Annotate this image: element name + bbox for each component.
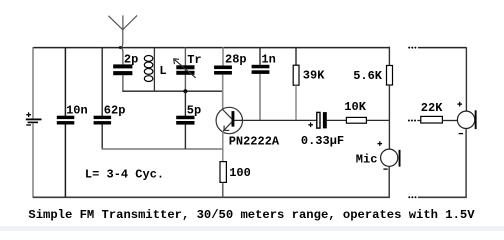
- node tank junction: [183, 89, 187, 93]
- wire 1n bottom lead: [259, 74, 261, 121]
- svg-text:2p: 2p: [124, 52, 138, 66]
- wire 10n top lead: [64, 47, 66, 116]
- wire 22K to earpiece: [442, 120, 457, 122]
- svg-text:5.6K: 5.6K: [353, 69, 383, 83]
- svg-text:Tr: Tr: [187, 53, 201, 67]
- svg-text:100: 100: [229, 166, 251, 180]
- svg-text:L: L: [159, 64, 166, 78]
- wire right rail top: [388, 47, 390, 66]
- resistor R4 5.6K: [353, 66, 392, 86]
- wire 10n bottom lead: [64, 125, 66, 198]
- capacitor C4 5p: [176, 104, 201, 125]
- wire inductor branch: [153, 47, 155, 91]
- svg-text:62p: 62p: [104, 104, 126, 118]
- svg-text:5p: 5p: [187, 104, 201, 118]
- wire 10K to right rail: [366, 119, 389, 121]
- wire tank row: [122, 90, 223, 92]
- transistor Q1 PN2222A: [216, 107, 280, 148]
- resistor R3 10K: [344, 100, 366, 123]
- svg-text:10n: 10n: [66, 104, 88, 118]
- svg-text:1n: 1n: [261, 52, 275, 66]
- antenna: [108, 15, 137, 47]
- capacitor C7 0.33uF: [301, 112, 344, 148]
- wire dotted link bottom: [408, 196, 416, 198]
- wire left rail upper: [32, 47, 34, 118]
- wire 2p bottom lead: [122, 75, 124, 91]
- wire left rail lower: [32, 123, 34, 197]
- wire right circuit right rail lower: [465, 129, 467, 198]
- wire right circuit right rail upper: [465, 47, 467, 111]
- wire dotted link top: [408, 47, 416, 49]
- resistor R2 39K: [293, 65, 325, 85]
- capacitor C2 62p: [94, 104, 126, 125]
- svg-text:PN2222A: PN2222A: [229, 135, 280, 149]
- wire right rail middle: [388, 85, 390, 149]
- wire right circuit top rail: [418, 47, 467, 49]
- node antenna junction: [119, 46, 122, 49]
- wire right circuit bottom rail: [418, 196, 467, 198]
- wire to 22K: [417, 120, 421, 122]
- resistor R5 22K: [421, 101, 443, 123]
- wire 5p bottom lead: [184, 125, 186, 149]
- earpiece MIC2: [457, 102, 476, 134]
- wire C7 to 10K: [327, 119, 347, 121]
- wire 2p top lead: [120, 48, 123, 66]
- battery BT1: [26, 112, 42, 125]
- wire collector lead: [222, 75, 224, 110]
- wire 5p top lead: [184, 91, 186, 116]
- wire 62p bottom lead: [101, 125, 103, 150]
- svg-text:28p: 28p: [225, 52, 247, 66]
- wire dotted link middle: [408, 120, 416, 122]
- wire 62p top lead: [101, 47, 103, 116]
- trimmer capacitor Tr: [174, 53, 202, 78]
- wire 39K top lead: [295, 47, 297, 65]
- wire emitter lead: [222, 131, 224, 161]
- wire MIC1 bottom lead: [388, 166, 390, 197]
- capacitor C5 28p: [214, 52, 247, 74]
- svg-text:Simple FM Transmitter, 30/50 m: Simple FM Transmitter, 30/50 meters rang…: [28, 208, 475, 222]
- wire bottom rail: [33, 196, 390, 198]
- wire trimmer branch: [184, 47, 186, 91]
- footer strip: [0, 226, 504, 231]
- wire emitter row: [102, 148, 223, 150]
- svg-text:Mic: Mic: [356, 152, 378, 166]
- capacitor C6 1n: [252, 52, 276, 74]
- svg-text:22K: 22K: [421, 101, 443, 115]
- capacitor C3 2p: [113, 52, 138, 75]
- inductor L: [144, 56, 166, 82]
- svg-text:0.33µF: 0.33µF: [301, 134, 344, 148]
- microphone MIC1: [356, 141, 401, 169]
- svg-text:L= 3-4 Cyc.: L= 3-4 Cyc.: [85, 168, 164, 182]
- wire base row: [234, 119, 316, 121]
- svg-text:10K: 10K: [344, 100, 366, 114]
- resistor R1 100: [220, 162, 251, 183]
- svg-text:39K: 39K: [303, 69, 325, 83]
- wire 39K bottom lead: [295, 85, 297, 120]
- wire top rail: [33, 47, 390, 49]
- capacitor C1 10n: [57, 104, 88, 125]
- wire 28p top lead: [222, 47, 224, 65]
- wire 1n top lead: [259, 47, 261, 65]
- wire R1 bottom lead: [222, 182, 224, 197]
